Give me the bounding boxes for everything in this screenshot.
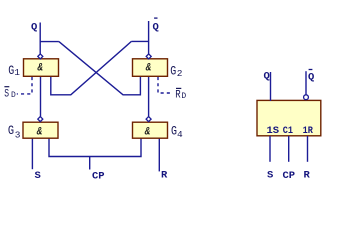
G4 output bubble	[146, 117, 151, 122]
svg-text:D: D	[11, 91, 16, 100]
symbol Q output wire	[270, 72, 272, 101]
wire: RD dashed reset input	[158, 77, 173, 93]
G1 output bubble	[38, 54, 43, 59]
wire: CP net G3-G4	[49, 139, 141, 157]
svg-text:1: 1	[14, 67, 20, 78]
svg-text:C1: C1	[283, 125, 293, 137]
svg-text:&: &	[36, 126, 43, 138]
gate G2 box	[133, 59, 168, 77]
wire: Q output vertical	[39, 23, 41, 55]
wire: Qbar to G1 input diagonal	[51, 41, 132, 94]
svg-text:R: R	[304, 170, 311, 182]
svg-text:CP: CP	[283, 170, 296, 182]
G2 output bubble	[146, 54, 151, 59]
svg-text:Q: Q	[31, 21, 37, 33]
svg-text:&: &	[144, 126, 151, 138]
symbol R input wire	[307, 136, 309, 162]
svg-text:2: 2	[177, 68, 183, 79]
label Qbar overbar	[154, 17, 157, 19]
svg-text:1R: 1R	[303, 125, 314, 137]
gate G3 box	[23, 122, 58, 138]
svg-text:3: 3	[15, 129, 21, 140]
svg-text:S: S	[35, 170, 41, 182]
svg-text:&: &	[145, 63, 152, 75]
G3 output bubble	[38, 117, 43, 122]
svg-text:Q: Q	[153, 22, 159, 34]
symbol Qbar bubble	[304, 95, 309, 100]
svg-text:R: R	[161, 170, 168, 182]
gate G1 box	[24, 59, 59, 77]
label RD overbar	[176, 87, 181, 89]
wire: G4 output to G2 input	[148, 76, 150, 116]
svg-text:CP: CP	[92, 171, 105, 183]
svg-text:G: G	[170, 64, 176, 78]
label SD overbar	[4, 86, 9, 88]
svg-text:Q: Q	[264, 70, 270, 82]
svg-text:S: S	[267, 170, 273, 182]
wire: Qbar branch horizontal	[131, 40, 148, 42]
svg-text:D: D	[181, 92, 186, 101]
svg-text:&: &	[37, 63, 44, 75]
svg-text:Q: Q	[308, 72, 314, 84]
gate G4 box	[133, 122, 168, 138]
svg-text:4: 4	[177, 129, 183, 140]
wire: Q to G2 input diagonal	[59, 42, 140, 95]
svg-text:S: S	[4, 88, 9, 100]
wire: G3 output to G1 input	[40, 76, 42, 116]
wire: R input	[158, 139, 160, 172]
symbol U1 box	[257, 100, 321, 135]
symbol CP input wire	[288, 136, 290, 162]
svg-text:R: R	[175, 89, 181, 101]
wire: SD dashed set input	[17, 77, 32, 94]
svg-text:1S: 1S	[267, 125, 280, 137]
wire: Qbar output vertical	[148, 21, 150, 54]
symbol S input wire	[269, 136, 271, 162]
svg-text:G: G	[8, 124, 14, 138]
wire: S input	[31, 139, 33, 170]
wire: CP stub	[89, 157, 91, 170]
symbol label Qbar overbar	[309, 69, 313, 71]
wire: Q branch horizontal	[40, 41, 59, 43]
symbol Qbar output wire	[305, 71, 307, 95]
